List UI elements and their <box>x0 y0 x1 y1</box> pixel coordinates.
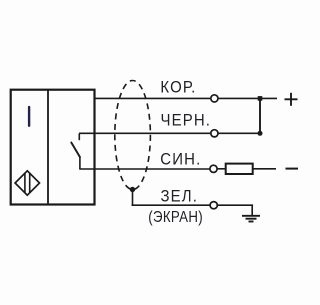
wire ZEL to ground <box>217 204 253 206</box>
wire CHERN (black) <box>79 132 211 134</box>
ground <box>242 216 260 222</box>
wire ZEL horizontal <box>132 204 211 206</box>
switch contact <box>71 134 80 170</box>
wire SIN (blue) <box>79 168 210 170</box>
junction bus vertical <box>259 98 261 133</box>
inductive sensor symbol (diamond) <box>15 171 39 195</box>
wire resistor to minus <box>253 168 276 170</box>
svg-text:ЧЕРН.: ЧЕРН. <box>161 112 212 130</box>
load resistor <box>226 164 253 174</box>
junction dot bottom <box>258 131 263 136</box>
indicator I <box>28 106 30 127</box>
minus symbol <box>286 168 299 170</box>
wire SIN to resistor <box>217 168 226 170</box>
terminal circle KOR <box>211 95 218 102</box>
svg-text:КОР.: КОР. <box>160 79 196 97</box>
cable sheath ellipse (dashed) <box>115 81 151 190</box>
junction dot top <box>258 96 263 101</box>
wire KOR (brown) <box>96 97 211 99</box>
ground stem <box>251 205 253 216</box>
wire KOR right segment <box>218 97 277 99</box>
terminal circle CHERN <box>211 130 218 137</box>
svg-text:ЗЕЛ.: ЗЕЛ. <box>161 188 199 206</box>
sensor body rectangle <box>11 90 95 205</box>
body divider <box>47 90 49 205</box>
svg-text:СИН.: СИН. <box>160 151 201 169</box>
wire CHERN right segment <box>218 132 260 134</box>
shield junction dot <box>130 187 135 192</box>
plus symbol <box>285 93 298 106</box>
svg-text:(ЭКРАН): (ЭКРАН) <box>148 209 203 226</box>
wire ZEL (shield) vertical <box>132 190 134 206</box>
terminal circle SIN <box>210 165 217 172</box>
terminal circle ZEL <box>210 202 217 209</box>
